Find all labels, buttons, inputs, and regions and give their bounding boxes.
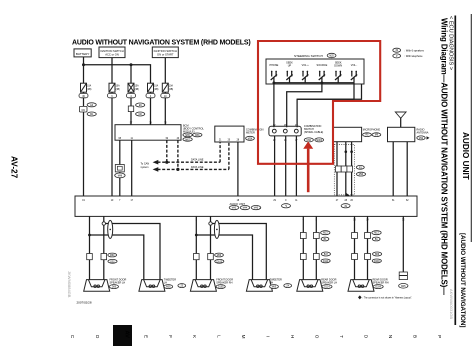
svg-text:AUDIO UNIT: AUDIO UNIT <box>461 132 470 180</box>
mic shield dotted <box>334 145 354 195</box>
CAN dashed line 1 <box>166 140 168 162</box>
svg-text:4S: 4S <box>395 50 398 52</box>
svg-text:H: H <box>290 335 295 338</box>
audio unit main box <box>75 193 417 222</box>
wire BCM pin 11 to audio <box>131 140 133 196</box>
speaker rear door RH <box>348 278 389 291</box>
steering switch SW1 <box>266 53 364 84</box>
speakers section <box>67 216 412 304</box>
node crossover circle LH <box>102 222 105 225</box>
svg-text:15A: 15A <box>135 85 140 88</box>
wire switch output B <box>287 83 322 127</box>
right edge line <box>470 14 472 242</box>
svg-text:10A: 10A <box>87 85 92 88</box>
svg-text:SPEAKER RH: SPEAKER RH <box>216 281 232 284</box>
wire battery drop <box>83 57 85 83</box>
radio antenna <box>388 112 430 142</box>
svg-text:M44: M44 <box>243 208 248 210</box>
svg-text:STEERING SWITCH: STEERING SWITCH <box>294 54 323 58</box>
svg-text:M13: M13 <box>374 233 379 235</box>
svg-text:MICROPHONE: MICROPHONE <box>363 129 381 132</box>
svg-text:< ECU DIAGNOSIS >: < ECU DIAGNOSIS > <box>448 16 454 70</box>
svg-text:M67: M67 <box>185 139 190 141</box>
svg-text:IGNITION SWITCH: IGNITION SWITCH <box>154 49 177 53</box>
wire W1 battery feed <box>83 92 85 93</box>
connector M46 <box>115 165 125 178</box>
wire W3 to BCM <box>130 92 132 93</box>
svg-text:M303: M303 <box>316 140 322 142</box>
ignition switch ACC <box>99 47 125 58</box>
svg-text:D204: D204 <box>376 287 382 289</box>
inline connectors rear RH row1 <box>352 233 358 239</box>
twisted pair symbol LH <box>108 220 113 238</box>
battery B1 <box>74 49 91 57</box>
wire W2 ACC feed <box>111 92 113 93</box>
wire BCM pin to connector M46 <box>119 140 121 196</box>
ignition switch START <box>152 47 178 58</box>
svg-text:M65: M65 <box>272 287 277 289</box>
fuse F4 <box>146 83 159 98</box>
svg-text:M45: M45 <box>254 208 259 210</box>
svg-text:M34: M34 <box>248 138 253 140</box>
svg-text:M32: M32 <box>419 138 424 140</box>
twisted pair symbol RH <box>214 220 219 238</box>
svg-text:L: L <box>217 335 222 338</box>
wire bus1 to fuse F3 <box>130 65 132 83</box>
svg-text:D114: D114 <box>324 287 330 289</box>
svg-text:: With 6 speakers: : With 6 speakers <box>405 49 425 52</box>
spiral cable connector <box>269 125 324 142</box>
speaker front door RH <box>190 278 233 291</box>
svg-text:2007/02/28: 2007/02/28 <box>77 300 92 304</box>
svg-text:JKWM0884GB: JKWM0884GB <box>67 271 72 298</box>
wire switch output A <box>273 83 275 127</box>
svg-text:E: E <box>144 335 149 338</box>
wire W4 to BCM <box>150 92 152 93</box>
svg-text:M25: M25 <box>329 56 334 58</box>
svg-text:M66: M66 <box>195 135 200 137</box>
fuse F2 <box>108 83 121 98</box>
svg-text:ON or START: ON or START <box>157 53 174 57</box>
svg-text:T: T <box>339 335 344 338</box>
svg-text:(4B): (4B) <box>169 89 174 91</box>
wire W5 to BCM <box>164 92 166 93</box>
wire front LH pair <box>89 216 91 279</box>
microphone <box>333 127 381 141</box>
svg-text:P: P <box>437 335 442 338</box>
svg-text:B: B <box>413 335 418 338</box>
svg-text:UP: UP <box>288 64 292 67</box>
svg-text:M60: M60 <box>217 255 222 257</box>
right sidebar separator line <box>454 16 456 326</box>
svg-text:M35: M35 <box>401 286 406 288</box>
svg-text:SPEAKER LH: SPEAKER LH <box>110 281 126 284</box>
svg-text:(SPIRAL CABLE): (SPIRAL CABLE) <box>304 131 324 134</box>
svg-text:(4B): (4B) <box>154 89 159 91</box>
svg-text:: The connector is not shown i: : The connector is not shown in “Harness… <box>363 296 413 299</box>
connector M35 <box>399 272 408 288</box>
svg-text:D52: D52 <box>110 261 115 263</box>
node crossover circle RH <box>209 222 212 225</box>
svg-text:SOURCE: SOURCE <box>317 64 328 67</box>
svg-text:To CAN: To CAN <box>141 162 150 165</box>
svg-text:O: O <box>315 335 320 339</box>
wire ACC drop <box>111 58 113 84</box>
svg-text:M30: M30 <box>307 140 312 142</box>
svg-text:PHONE: PHONE <box>269 64 278 67</box>
svg-text:(4B): (4B) <box>87 89 92 91</box>
svg-text:METER: METER <box>246 132 255 135</box>
fuse F3 <box>127 83 140 98</box>
svg-text:AV-27: AV-27 <box>10 156 19 179</box>
CAN dashed line 2 <box>177 140 179 169</box>
svg-text:VOL +: VOL + <box>302 64 310 67</box>
svg-text:O: O <box>95 335 100 339</box>
wire switch output C <box>297 83 354 127</box>
fuse F1 10A <box>79 83 92 98</box>
svg-text:10A: 10A <box>116 85 121 88</box>
svg-text:M60: M60 <box>110 255 115 257</box>
svg-text:system: system <box>141 166 149 169</box>
svg-text:SPEAKER LH: SPEAKER LH <box>321 281 337 284</box>
svg-text:10A: 10A <box>154 85 159 88</box>
wire internal rail <box>274 82 354 84</box>
svg-text:M65: M65 <box>185 135 190 137</box>
svg-text:D105: D105 <box>218 287 224 289</box>
svg-text:4S: 4S <box>344 206 347 208</box>
inline connectors rear LH row2 <box>300 254 306 260</box>
svg-text:: With telephone: : With telephone <box>405 55 424 58</box>
svg-text:M13: M13 <box>323 233 328 235</box>
svg-text:SPEAKER RH: SPEAKER RH <box>373 281 389 284</box>
connector E3/M1 on W1 <box>79 103 96 116</box>
svg-text:VOL -: VOL - <box>351 64 358 67</box>
fuse F5 <box>161 83 174 98</box>
svg-text:DATA LINE: DATA LINE <box>191 166 204 169</box>
svg-text:10A: 10A <box>169 85 174 88</box>
svg-text:IGNITION SWITCH: IGNITION SWITCH <box>100 49 123 53</box>
svg-text:AUDIO UNIT: AUDIO UNIT <box>230 202 246 206</box>
inline connectors rear RH row2 <box>352 254 358 260</box>
wire meter to audio <box>237 142 239 196</box>
svg-text:AUDIO WITHOUT NAVIGATION SYSTE: AUDIO WITHOUT NAVIGATION SYSTEM (RHD MOD… <box>72 40 250 47</box>
red highlight rectangle <box>258 41 380 164</box>
svg-text:M55: M55 <box>166 287 171 289</box>
node bus1 <box>84 65 151 83</box>
wire branch to tweeter LH <box>104 224 160 280</box>
legend <box>393 48 425 58</box>
wire branch to tweeter RH <box>211 224 267 280</box>
svg-text:D203: D203 <box>374 261 380 263</box>
svg-text:ACC or ON: ACC or ON <box>105 53 119 57</box>
svg-text:[AUDIO WITHOUT NAVIGATION]: [AUDIO WITHOUT NAVIGATION] <box>459 233 466 327</box>
steering switch internals <box>269 62 361 128</box>
speaker rear door LH <box>297 278 337 291</box>
svg-text:D06: D06 <box>112 287 117 289</box>
svg-text:I: I <box>266 336 271 337</box>
inline connectors front RH <box>194 254 200 260</box>
svg-text:(4B): (4B) <box>116 89 121 91</box>
svg-text:DATA LINE: DATA LINE <box>191 158 204 161</box>
wires mic to audio <box>336 142 338 196</box>
svg-text:D105: D105 <box>217 261 223 263</box>
mic inline connector row <box>336 165 366 176</box>
svg-text:M43: M43 <box>232 208 237 210</box>
wire rear RH pair <box>354 216 356 279</box>
svg-text:F: F <box>168 335 173 338</box>
speaker tweeter RH <box>246 278 291 291</box>
svg-text:ANTENNA: ANTENNA <box>417 132 429 135</box>
inline connectors front LH <box>87 254 93 260</box>
svg-text:DOWN: DOWN <box>334 64 342 67</box>
wire antenna amp <box>402 216 404 272</box>
inline connectors rear LH row1 <box>300 233 306 239</box>
footnote <box>358 295 362 299</box>
svg-text:Wiring Diagram—AUDIO WITHOUT N: Wiring Diagram—AUDIO WITHOUT NAVIGATION … <box>440 18 449 295</box>
svg-text:BATTERY: BATTERY <box>76 52 90 56</box>
AV tab <box>113 325 132 346</box>
speaker front door LH <box>84 278 127 291</box>
wire front RH pair <box>195 216 197 279</box>
wire START drop <box>164 58 166 84</box>
svg-text:AV: AV <box>124 331 130 339</box>
bottom tab letters <box>70 335 442 339</box>
svg-text:D113: D113 <box>323 261 329 263</box>
wires spiral cable to audio <box>274 136 276 196</box>
wire rear LH pair <box>302 216 304 279</box>
svg-text:N: N <box>388 335 393 338</box>
svg-text:AKWWA0031GB: AKWWA0031GB <box>449 289 454 319</box>
svg-text:M93: M93 <box>359 174 364 176</box>
red arrow <box>303 141 313 192</box>
svg-text:(4B): (4B) <box>135 89 140 91</box>
BCM U1 <box>115 123 204 142</box>
svg-text:LH: LH <box>164 281 167 284</box>
speaker tweeter LH <box>139 278 186 291</box>
wires antenna to audio <box>392 142 394 196</box>
combination meter M34 <box>215 126 264 142</box>
svg-text:M: M <box>241 335 246 339</box>
svg-text:M46: M46 <box>118 175 123 177</box>
svg-text:RH: RH <box>270 281 274 284</box>
connector on W3 <box>128 103 144 116</box>
